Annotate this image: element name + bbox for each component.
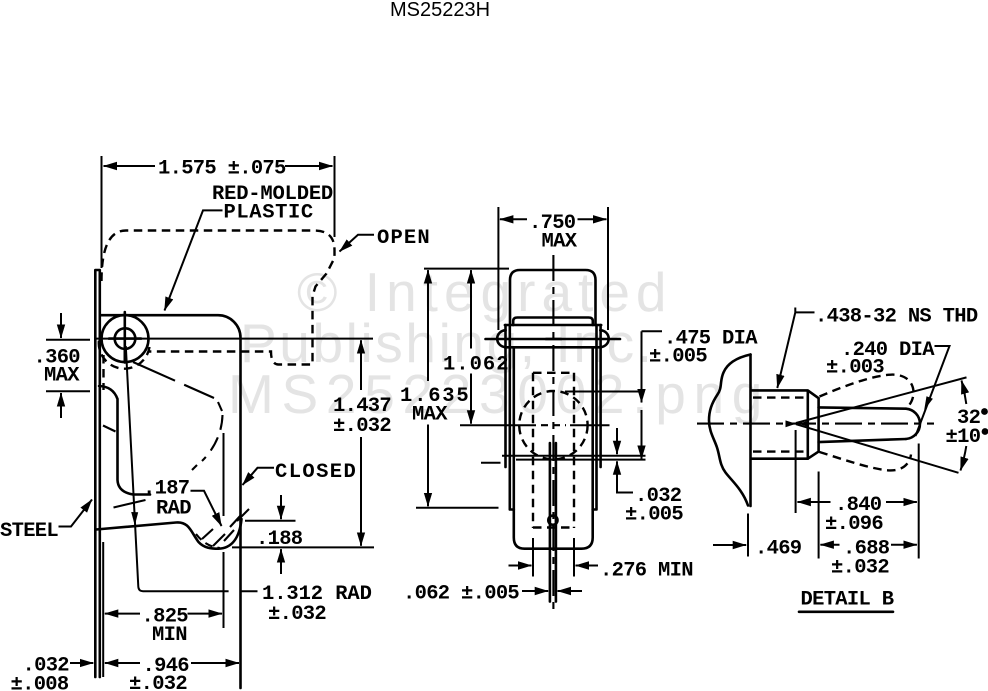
- label .438-32 NS THD with leader: [777, 306, 978, 389]
- open guard dashed arc around boss: [99, 334, 150, 369]
- flange top and bottom lines: [505, 325, 601, 347]
- label OPEN with leader: [340, 227, 431, 252]
- dimension 1.575 ±.075: [102, 156, 335, 268]
- svg-text:MS25223H: MS25223H: [390, 0, 490, 21]
- svg-text:.469: .469: [755, 538, 802, 561]
- svg-text:±10: ±10: [946, 426, 981, 449]
- panel flat face: [749, 355, 752, 507]
- angle leg lower: [796, 424, 959, 473]
- svg-text:.438-32 NS THD: .438-32 NS THD: [815, 306, 978, 329]
- svg-text:±.008: ±.008: [11, 674, 69, 691]
- hood outer rounded top: [510, 270, 596, 325]
- svg-text:±.032: ±.032: [831, 557, 889, 580]
- extension lines: panel tip, bushing end, pivot, lever tip: [748, 430, 919, 559]
- svg-text:RAD: RAD: [156, 498, 191, 521]
- svg-text:DETAIL B: DETAIL B: [801, 589, 894, 612]
- guard closed: top edge + right edge (extended down as extension line): [100, 315, 241, 688]
- panel wavy section edge: [709, 355, 751, 506]
- body middle sides: [510, 325, 597, 510]
- guard inner left edge with fillets: [99, 386, 150, 495]
- label STEEL with leader: [0, 500, 92, 544]
- svg-text:±.003: ±.003: [826, 357, 884, 380]
- phantom lever short dash: [218, 402, 222, 411]
- svg-text:CLOSED: CLOSED: [275, 461, 357, 484]
- lever tip dashed arc: [196, 534, 220, 548]
- dimension 1.062: [443, 270, 510, 424]
- dimension .825 MIN: [105, 433, 224, 647]
- open guard dashed edge along panel: [102, 355, 104, 390]
- dimension .032 ±.005 (slot): [617, 428, 683, 527]
- mounting ear right (half-circle): [600, 330, 608, 347]
- angle dimension arc 32: [962, 381, 967, 405]
- toggle lever solid: [819, 407, 906, 442]
- label CLOSED with leader: [243, 461, 358, 485]
- svg-text:MAX: MAX: [412, 404, 448, 427]
- terminal/actuator center lines: [550, 443, 556, 602]
- dashed lever down position: [820, 452, 912, 470]
- lever tip hatch dashes: [202, 509, 249, 546]
- mounting ear left (half-circle): [497, 330, 505, 347]
- svg-text:.062 ±.005: .062 ±.005: [403, 583, 519, 606]
- label RED-MOLDED PLASTIC: [165, 183, 334, 311]
- dimension .360 MAX: [34, 313, 91, 418]
- center tick on ear centerline: [546, 338, 561, 341]
- open guard dashed outline: [102, 231, 335, 365]
- dimension 1.437 ±.032: [333, 340, 391, 546]
- svg-text:MAX: MAX: [44, 365, 80, 388]
- pivot cross (thick): [109, 312, 141, 363]
- extension line x=103 below guard: [102, 542, 104, 677]
- bushing face reference line y=547.4: [232, 546, 374, 548]
- phantom lever long dash from pivot: [133, 362, 214, 398]
- dimension .276 MIN: [509, 538, 693, 583]
- dimension 1.635 MAX: [400, 270, 499, 508]
- dimension .946 ±.032: [105, 655, 239, 691]
- terminal screw circle: [548, 516, 557, 525]
- phantom dashes along panel: [103, 426, 116, 432]
- svg-text:±.032: ±.032: [129, 673, 187, 691]
- bushing body: [752, 390, 819, 458]
- pivot hole circle: [115, 328, 136, 349]
- pivot point opposing arrowheads: [786, 420, 797, 427]
- pivot centerline horizontal: [96, 338, 373, 340]
- dimension .750 MAX: [498, 207, 608, 330]
- hood inner step: [513, 318, 593, 326]
- svg-text:1.575 ±.075: 1.575 ±.075: [158, 158, 286, 181]
- pivot horizontal centerline segments: [460, 424, 610, 426]
- dashed lever opening circle .475 dia: [519, 391, 587, 459]
- dimension .062 ±.005: [403, 583, 582, 606]
- circle top tangent line: [565, 391, 643, 393]
- svg-text:1.062: 1.062: [443, 354, 510, 377]
- dimension .469: [713, 538, 802, 561]
- body bottom cup: [514, 347, 593, 548]
- dimension .188: [245, 495, 303, 574]
- dashed lever up position: [820, 375, 914, 407]
- svg-text:MIN: MIN: [152, 624, 187, 647]
- body outer sides: [506, 325, 601, 467]
- phantom dash near panel: [114, 500, 146, 508]
- label .240 DIA ±.003 with leader: [826, 339, 950, 436]
- top extension line for 1.062/1.635: [424, 268, 509, 270]
- dimension .688 ±.032: [820, 538, 917, 580]
- guard bottom wavy edge with finger scoop and tip arc: [96, 519, 242, 549]
- lever tip arc: [906, 409, 920, 439]
- dimension .840 ±.096: [797, 494, 917, 536]
- horizontal centerline: [697, 423, 934, 425]
- svg-text:OPEN: OPEN: [377, 227, 431, 250]
- short reference segment left of body: [481, 462, 501, 464]
- thread dashed lines: [753, 398, 807, 452]
- dimension .032 ±.008 (panel thickness): [11, 655, 94, 691]
- svg-text:STEEL: STEEL: [0, 520, 58, 543]
- label .187 RAD with leader: [143, 478, 222, 527]
- svg-text:±.005: ±.005: [625, 504, 683, 527]
- dimension .475 DIA ±.005: [642, 328, 759, 459]
- svg-text:PLASTIC: PLASTIC: [224, 202, 314, 225]
- svg-text:±.005: ±.005: [649, 346, 707, 369]
- angle leg upper: [796, 377, 967, 423]
- svg-text:±.096: ±.096: [825, 513, 883, 536]
- steel panel (two vertical lines + top cap): [95, 270, 100, 677]
- phantom lever curve dashes: [202, 415, 223, 461]
- angle text 32 ±10: [946, 407, 988, 449]
- DETAIL B title with underline: [799, 589, 894, 612]
- svg-text:.188: .188: [256, 528, 303, 551]
- svg-text:MAX: MAX: [542, 231, 578, 254]
- phantom lever end dash: [192, 465, 197, 470]
- svg-text:±.032: ±.032: [333, 415, 391, 438]
- pivot boss circle: [102, 315, 149, 362]
- svg-text:±.032: ±.032: [268, 603, 326, 626]
- leader 1.312 RAD (radius line from pivot with arrow): [126, 346, 372, 626]
- horizontal centerline through ears: [486, 338, 621, 341]
- slot lines .032 apart: [502, 456, 646, 460]
- dashed lever cavity rectangle: [533, 373, 574, 528]
- svg-text:.276 MIN: .276 MIN: [600, 560, 693, 583]
- vertical centerline (dashed): [552, 255, 554, 612]
